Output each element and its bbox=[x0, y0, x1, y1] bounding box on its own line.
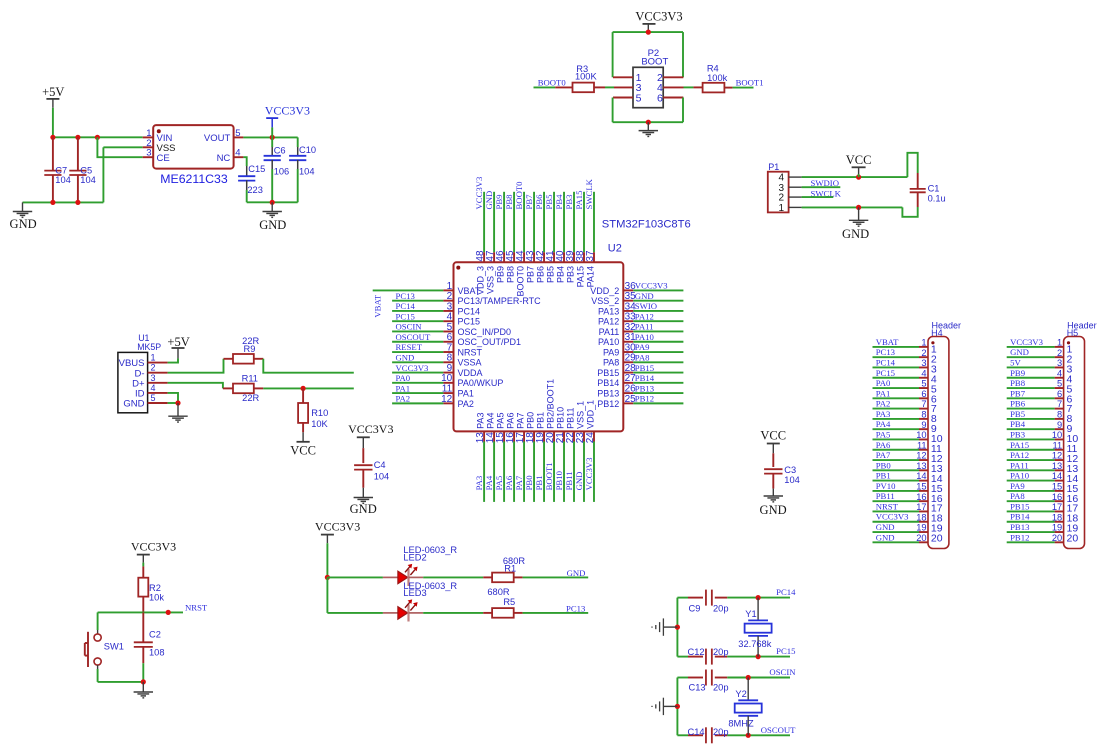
svg-text:VCC3V3: VCC3V3 bbox=[396, 363, 429, 373]
svg-text:PB8: PB8 bbox=[504, 194, 514, 210]
svg-text:18: 18 bbox=[916, 512, 926, 522]
svg-text:VCC3V3: VCC3V3 bbox=[315, 520, 360, 534]
svg-text:14: 14 bbox=[1052, 471, 1062, 481]
svg-text:PA11: PA11 bbox=[635, 322, 654, 332]
net label GND bbox=[1010, 347, 1029, 357]
svg-text:20p: 20p bbox=[713, 727, 729, 737]
svg-text:2: 2 bbox=[151, 363, 156, 373]
wire D- out bbox=[263, 359, 354, 373]
svg-text:R1: R1 bbox=[504, 563, 516, 573]
net label GND bbox=[484, 191, 494, 210]
svg-text:PB14: PB14 bbox=[1010, 512, 1030, 522]
net label PA15 bbox=[1010, 440, 1029, 450]
net label PA7 bbox=[514, 475, 524, 490]
capacitor C6 bbox=[264, 145, 290, 176]
net label PA6 bbox=[504, 475, 514, 490]
junction boot gnd bbox=[646, 120, 651, 125]
net label PA2 bbox=[876, 399, 891, 409]
net label PA11 bbox=[635, 322, 654, 332]
junction boot vcc bbox=[646, 29, 651, 34]
mcu pin 28 PB15 bbox=[597, 363, 683, 378]
svg-text:OSC_IN/PD0: OSC_IN/PD0 bbox=[458, 327, 512, 337]
net label PC15 bbox=[776, 646, 795, 656]
H5 pin 8 bbox=[1007, 409, 1073, 425]
svg-text:1: 1 bbox=[151, 353, 156, 363]
junction C7/gnd bbox=[50, 200, 55, 205]
svg-text:100K: 100K bbox=[575, 72, 598, 82]
label GND bbox=[842, 227, 869, 241]
net label NRST bbox=[876, 501, 899, 511]
H5 pin 9 bbox=[1007, 420, 1073, 435]
wire C1 bottom loop bbox=[902, 207, 917, 217]
svg-text:0.1u: 0.1u bbox=[928, 193, 946, 203]
ground usb stem bbox=[177, 403, 179, 416]
H5 pin 1 bbox=[1007, 338, 1073, 356]
svg-text:PB7: PB7 bbox=[1010, 388, 1026, 398]
net label PC14 bbox=[396, 301, 416, 311]
net label PA0 bbox=[396, 373, 411, 383]
resistor R2 10k bbox=[138, 566, 164, 612]
svg-text:GND: GND bbox=[842, 227, 869, 241]
net label PB4 bbox=[1010, 419, 1026, 429]
svg-text:PB12: PB12 bbox=[635, 394, 654, 404]
junction gnd P1 bbox=[856, 205, 861, 210]
svg-text:100k: 100k bbox=[707, 73, 728, 83]
mcu pin 13 PA3 bbox=[475, 413, 486, 502]
wire D+ to R11 bbox=[168, 383, 223, 389]
svg-text:C5: C5 bbox=[80, 166, 92, 176]
svg-text:PA9: PA9 bbox=[1010, 481, 1025, 491]
ground C3 stem bbox=[772, 489, 774, 496]
mcu pin 23 VSS_1 bbox=[575, 401, 586, 502]
svg-text:PA6: PA6 bbox=[876, 440, 891, 450]
svg-text:PA6: PA6 bbox=[506, 413, 516, 429]
svg-text:VCC3V3: VCC3V3 bbox=[584, 458, 594, 491]
svg-text:VCC: VCC bbox=[760, 428, 786, 442]
net label PB6 bbox=[534, 194, 544, 210]
wire NRST row bbox=[98, 611, 183, 613]
mcu pin 30 PA9 bbox=[603, 342, 683, 357]
svg-text:C3: C3 bbox=[784, 465, 796, 475]
H4 pin 19 bbox=[873, 523, 943, 535]
net label GND bbox=[396, 352, 415, 362]
svg-text:PA5: PA5 bbox=[494, 476, 504, 491]
mcu pin 27 PB14 bbox=[597, 373, 683, 388]
junction VCC P1 bbox=[856, 175, 861, 180]
svg-text:PB9: PB9 bbox=[496, 266, 506, 283]
net label PA3 bbox=[876, 409, 891, 419]
svg-text:PC13: PC13 bbox=[566, 604, 585, 614]
junction OSCIN bbox=[746, 675, 751, 680]
mcu pin 32 PA11 bbox=[599, 322, 684, 337]
svg-text:STM32F103C8T6: STM32F103C8T6 bbox=[602, 219, 691, 231]
net label PC14 bbox=[876, 357, 896, 367]
svg-text:C4: C4 bbox=[374, 460, 386, 470]
svg-text:OSC_OUT/PD1: OSC_OUT/PD1 bbox=[458, 337, 522, 347]
wire PC15 bbox=[727, 656, 790, 658]
svg-text:5: 5 bbox=[636, 92, 642, 104]
mcu pin 8 VSSA bbox=[392, 353, 481, 368]
mcu pin 21 PB10 bbox=[555, 407, 566, 502]
wire cap left 2 bbox=[677, 656, 688, 658]
svg-text:PA10: PA10 bbox=[635, 332, 655, 342]
wire gnd row P1 bbox=[802, 206, 903, 208]
svg-text:11: 11 bbox=[1053, 440, 1063, 450]
ground C4 stem bbox=[362, 488, 364, 498]
svg-text:R9: R9 bbox=[244, 344, 256, 354]
label GND bbox=[10, 217, 37, 231]
ground reset bbox=[134, 692, 153, 698]
svg-text:GND: GND bbox=[574, 472, 584, 491]
mcu pin 37 PA14 bbox=[585, 192, 596, 288]
net label PB5 bbox=[1010, 409, 1025, 419]
svg-text:PB15: PB15 bbox=[1010, 501, 1029, 511]
H5 pin 6 bbox=[1007, 389, 1073, 405]
svg-text:GND: GND bbox=[1010, 347, 1029, 357]
ground P1 stem bbox=[858, 207, 860, 220]
svg-text:5: 5 bbox=[921, 379, 926, 389]
junction C5/gnd bbox=[75, 200, 80, 205]
svg-text:OSCIN: OSCIN bbox=[396, 322, 423, 332]
power port VCC (P1) bbox=[846, 153, 872, 174]
svg-text:19: 19 bbox=[916, 523, 926, 533]
svg-text:PA4: PA4 bbox=[876, 419, 891, 429]
wire usb gnd bbox=[168, 402, 178, 404]
H4 pin 14 bbox=[873, 471, 943, 485]
power port VCC3V3 (C4) bbox=[348, 422, 393, 448]
svg-text:PA4: PA4 bbox=[486, 413, 496, 429]
wire ID down bbox=[168, 393, 178, 403]
net label PB9 bbox=[1010, 368, 1025, 378]
ground P1 bbox=[849, 220, 868, 226]
mcu pin 25 PB12 bbox=[597, 394, 683, 409]
svg-text:PB7: PB7 bbox=[526, 266, 536, 283]
svg-text:C15: C15 bbox=[248, 164, 265, 174]
mcu pin 7 NRST bbox=[392, 342, 482, 357]
mcu pin 48 VDD_3 bbox=[475, 192, 486, 295]
svg-text:20: 20 bbox=[931, 533, 943, 545]
wire D+ out bbox=[263, 387, 354, 389]
junction PC14 bbox=[756, 595, 761, 600]
svg-text:PA3: PA3 bbox=[876, 409, 891, 419]
svg-text:10K: 10K bbox=[311, 419, 328, 429]
svg-text:C13: C13 bbox=[689, 683, 706, 693]
net label PB13 bbox=[1010, 522, 1029, 532]
wire C10 top bbox=[297, 137, 299, 147]
svg-text:15: 15 bbox=[1052, 481, 1062, 491]
net label OSCOUT bbox=[396, 332, 431, 342]
mcu pin 18 PB0 bbox=[525, 412, 536, 502]
junction usb gnd bbox=[175, 400, 180, 405]
svg-text:PA5: PA5 bbox=[876, 429, 891, 439]
regulator U3 ME6211C33 bbox=[143, 125, 244, 186]
svg-text:680R: 680R bbox=[487, 587, 510, 597]
svg-text:VCC3V3: VCC3V3 bbox=[265, 103, 310, 117]
net label PC13 bbox=[396, 291, 415, 301]
wire BOOT1 bbox=[733, 87, 754, 89]
H4 pin 5 bbox=[873, 379, 937, 396]
wire D- to R9 bbox=[168, 359, 224, 373]
H5 pin 17 bbox=[1007, 502, 1079, 515]
mcu pin 10 PA0/WKUP bbox=[392, 373, 503, 388]
ground reset stem bbox=[142, 682, 144, 692]
H5 pin 7 bbox=[1007, 399, 1073, 415]
mcu pin 35 VSS_2 bbox=[591, 291, 683, 306]
mcu pin 4 PC15 bbox=[392, 312, 480, 327]
ground C4 bbox=[354, 498, 373, 504]
svg-text:PA8: PA8 bbox=[1010, 491, 1025, 501]
svg-text:20: 20 bbox=[916, 533, 926, 543]
mcu pin 40 PB4 bbox=[555, 192, 566, 283]
svg-text:PA5: PA5 bbox=[496, 413, 506, 429]
svg-text:BOOT: BOOT bbox=[641, 57, 668, 68]
svg-text:C14: C14 bbox=[688, 727, 705, 737]
net label PB3 bbox=[1010, 429, 1025, 439]
net label PA9 bbox=[635, 342, 650, 352]
wire xtal left rail bbox=[676, 598, 678, 657]
svg-text:104: 104 bbox=[374, 471, 390, 481]
wire NC to C15 bbox=[243, 157, 246, 166]
svg-text:PB6: PB6 bbox=[1010, 399, 1026, 409]
capacitor C1 0.1u bbox=[910, 173, 946, 207]
svg-text:Y2: Y2 bbox=[735, 689, 746, 699]
svg-text:C12: C12 bbox=[688, 647, 705, 657]
H4 pin 18 bbox=[873, 512, 943, 524]
net label PC13 bbox=[566, 604, 585, 614]
svg-text:104: 104 bbox=[80, 175, 96, 185]
svg-text:PC14: PC14 bbox=[776, 587, 796, 597]
svg-text:4: 4 bbox=[235, 148, 240, 159]
net label PA4 bbox=[484, 475, 494, 490]
svg-text:R11: R11 bbox=[242, 374, 258, 384]
svg-text:NRST: NRST bbox=[876, 501, 899, 511]
svg-text:PA8: PA8 bbox=[635, 352, 650, 362]
resistor R9 22R bbox=[224, 336, 264, 363]
svg-text:SW1: SW1 bbox=[104, 641, 124, 651]
svg-text:VCC3V3: VCC3V3 bbox=[1010, 337, 1043, 347]
svg-text:7: 7 bbox=[1057, 399, 1062, 409]
wire led vcc down bbox=[326, 543, 328, 577]
H4 pin 10 bbox=[873, 430, 943, 445]
power port VCC3V3 (regulator out) bbox=[265, 103, 310, 127]
mcu pin 3 PC14 bbox=[392, 301, 480, 316]
svg-text:16: 16 bbox=[1052, 492, 1062, 502]
svg-text:3: 3 bbox=[921, 358, 926, 368]
svg-text:12: 12 bbox=[441, 394, 453, 405]
connector P1 bbox=[768, 162, 802, 214]
junction reset gnd bbox=[141, 679, 146, 684]
net label BOOT0 bbox=[514, 181, 524, 210]
wire boot top rail bbox=[613, 31, 683, 33]
svg-text:6: 6 bbox=[657, 92, 663, 104]
mcu pin 17 PA7 bbox=[515, 413, 526, 502]
svg-text:11: 11 bbox=[917, 440, 927, 450]
label GND bbox=[760, 503, 787, 517]
H5 pin 18 bbox=[1007, 512, 1079, 524]
svg-text:PA10: PA10 bbox=[1010, 471, 1030, 481]
wire SWDIO bbox=[802, 186, 841, 188]
junction VOUT/VCC3V3 bbox=[270, 135, 275, 140]
svg-text:223: 223 bbox=[247, 185, 263, 195]
mcu pin 1 VBAT bbox=[373, 281, 481, 296]
svg-text:104: 104 bbox=[784, 475, 800, 485]
net label PB0 bbox=[876, 460, 892, 470]
svg-text:VCC: VCC bbox=[290, 444, 316, 458]
svg-text:14: 14 bbox=[916, 471, 926, 481]
resistor R11 22R bbox=[223, 374, 263, 404]
svg-text:C10: C10 bbox=[299, 145, 316, 155]
svg-text:PB15: PB15 bbox=[635, 363, 654, 373]
power port GND (regulator output) bbox=[271, 202, 273, 211]
wire VSS bbox=[103, 146, 142, 148]
svg-text:PA7: PA7 bbox=[516, 413, 526, 429]
wire PC14 bbox=[727, 597, 790, 599]
svg-text:OSCOUT: OSCOUT bbox=[761, 725, 796, 735]
svg-text:PB13: PB13 bbox=[597, 389, 619, 399]
svg-text:PB9: PB9 bbox=[1010, 368, 1025, 378]
power port VCC3V3 (reset) bbox=[131, 540, 176, 563]
svg-text:108: 108 bbox=[149, 648, 165, 658]
svg-text:4: 4 bbox=[921, 368, 926, 378]
svg-text:GND: GND bbox=[760, 503, 787, 517]
net label NRST bbox=[185, 602, 208, 612]
svg-text:PA7: PA7 bbox=[876, 450, 891, 460]
net label OSCOUT bbox=[761, 725, 796, 735]
svg-text:4: 4 bbox=[1057, 368, 1062, 378]
power port VCC3V3 (led) bbox=[315, 520, 360, 544]
svg-text:PA0/WKUP: PA0/WKUP bbox=[458, 378, 504, 388]
svg-text:ME6211C33: ME6211C33 bbox=[160, 172, 228, 186]
ground xtal side bbox=[652, 698, 663, 715]
power port +5V bbox=[42, 85, 64, 108]
svg-text:PA7: PA7 bbox=[514, 475, 524, 490]
svg-text:PC14: PC14 bbox=[876, 357, 896, 367]
wire boot right down bbox=[682, 32, 684, 77]
wire cap left 2 bbox=[677, 734, 688, 736]
net label PB15 bbox=[1010, 501, 1029, 511]
svg-text:32.768k: 32.768k bbox=[738, 639, 771, 649]
svg-text:PC15: PC15 bbox=[458, 317, 481, 327]
power port VCC (R10) bbox=[290, 432, 316, 457]
wire C6 top bbox=[271, 137, 273, 147]
mcu pin 43 PB7 bbox=[525, 192, 536, 283]
svg-text:PC14: PC14 bbox=[396, 301, 416, 311]
svg-text:SWIO: SWIO bbox=[635, 301, 657, 311]
svg-text:PB14: PB14 bbox=[635, 373, 655, 383]
mcu pin 24 VDD_1 bbox=[585, 400, 596, 502]
svg-text:106: 106 bbox=[274, 167, 290, 177]
net label PA8 bbox=[1010, 491, 1025, 501]
wire cap left bbox=[677, 677, 688, 679]
net label PA12 bbox=[1010, 450, 1029, 460]
svg-text:PB4: PB4 bbox=[556, 266, 566, 283]
svg-text:VDD_1: VDD_1 bbox=[586, 400, 596, 429]
wire vcc stem bbox=[647, 31, 649, 32]
svg-text:5: 5 bbox=[1057, 379, 1062, 389]
net label SWCLK bbox=[811, 188, 842, 198]
svg-text:PB5: PB5 bbox=[1010, 409, 1025, 419]
svg-text:PA15: PA15 bbox=[1010, 440, 1029, 450]
capacitor C3 104 bbox=[764, 453, 800, 488]
svg-text:PB9: PB9 bbox=[494, 195, 504, 210]
svg-text:8: 8 bbox=[1057, 409, 1062, 419]
capacitor C7 bbox=[44, 137, 71, 202]
wire C15 bottom bbox=[246, 190, 248, 202]
svg-text:10k: 10k bbox=[149, 592, 164, 602]
H5 pin 10 bbox=[1007, 430, 1079, 445]
net label PB12 bbox=[635, 394, 654, 404]
H4 pin 13 bbox=[873, 461, 943, 475]
mcu pin 5 OSC_IN/PD0 bbox=[392, 322, 511, 337]
mcu pin 14 PA4 bbox=[485, 413, 496, 502]
svg-text:PA3: PA3 bbox=[474, 476, 484, 491]
svg-text:GND: GND bbox=[635, 291, 654, 301]
wire boot bottom rail bbox=[613, 121, 683, 123]
connector P2 BOOT bbox=[613, 48, 684, 108]
wire R3 to pin3 bbox=[605, 86, 614, 88]
svg-text:6: 6 bbox=[921, 389, 926, 399]
net label PA4 bbox=[876, 419, 891, 429]
wire OSCIN bbox=[727, 677, 790, 679]
svg-text:24: 24 bbox=[585, 432, 596, 444]
svg-text:VCC3V3: VCC3V3 bbox=[876, 512, 909, 522]
net label PA1 bbox=[876, 388, 891, 398]
svg-text:BOOT0: BOOT0 bbox=[514, 181, 524, 210]
svg-text:PB0: PB0 bbox=[526, 412, 536, 429]
svg-text:22R: 22R bbox=[242, 393, 259, 403]
svg-text:VSSA: VSSA bbox=[458, 358, 482, 368]
junction led rows bbox=[325, 575, 330, 580]
svg-text:VSS_1: VSS_1 bbox=[576, 401, 586, 429]
net label PC15 bbox=[396, 311, 415, 321]
svg-text:5: 5 bbox=[235, 128, 240, 139]
H4 pin 15 bbox=[873, 481, 943, 494]
net label PB9 bbox=[494, 195, 504, 210]
mcu pin 34 PA13 bbox=[598, 301, 683, 316]
mcu U2 STM32F103C8T6 bbox=[454, 219, 691, 432]
svg-text:8MHZ: 8MHZ bbox=[728, 719, 754, 729]
svg-text:PB12: PB12 bbox=[1010, 532, 1029, 542]
mcu pin 31 PA10 bbox=[598, 332, 683, 347]
net label PB10 bbox=[554, 470, 564, 490]
crystal Y1 32.768k bbox=[738, 598, 771, 657]
net label GND bbox=[635, 291, 654, 301]
net label RESET bbox=[396, 342, 423, 352]
svg-text:20p: 20p bbox=[713, 647, 729, 657]
wire cap left bbox=[677, 597, 688, 599]
wire xtal left rail bbox=[676, 678, 678, 736]
net label PC13 bbox=[876, 347, 895, 357]
resistor R1 680R bbox=[483, 556, 525, 582]
svg-text:PA1: PA1 bbox=[876, 388, 891, 398]
wire led3 left bbox=[327, 612, 383, 614]
net label PA8 bbox=[635, 352, 650, 362]
net label PB15 bbox=[635, 363, 654, 373]
net label PB14 bbox=[1010, 512, 1030, 522]
svg-text:GND: GND bbox=[259, 218, 286, 232]
svg-text:PB11: PB11 bbox=[566, 408, 576, 429]
svg-text:NC: NC bbox=[217, 153, 231, 164]
mcu pin 6 OSC_OUT/PD1 bbox=[392, 332, 521, 347]
H5 pin 13 bbox=[1007, 461, 1079, 475]
net label PB8 bbox=[504, 194, 514, 210]
net label PB8 bbox=[1010, 378, 1026, 388]
svg-text:GND: GND bbox=[484, 191, 494, 210]
H4 pin 3 bbox=[873, 358, 937, 375]
svg-text:104: 104 bbox=[299, 167, 315, 177]
mcu pin 42 PB6 bbox=[535, 192, 546, 283]
svg-text:PA0: PA0 bbox=[876, 378, 891, 388]
